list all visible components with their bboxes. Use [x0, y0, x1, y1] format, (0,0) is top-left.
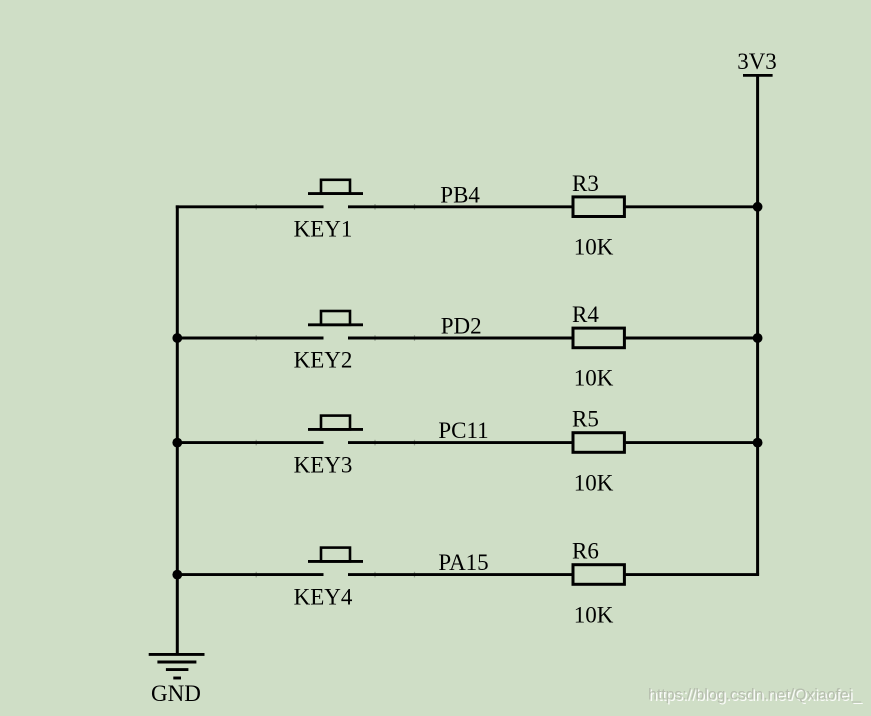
wire: row 4 right segment [626, 573, 760, 576]
power symbol 3V3 [743, 74, 773, 77]
watermark text bottom-right [648, 687, 864, 706]
wire: row 3 right segment [626, 441, 760, 444]
svg-text:PA15: PA15 [438, 550, 488, 575]
resistor R6 [573, 565, 624, 585]
svg-text:KEY3: KEY3 [294, 452, 353, 477]
svg-text:KEY2: KEY2 [294, 348, 353, 373]
wire joint row 2 at x=256.3 [256, 335, 257, 341]
wire: row 1 middle segment (switch to resistor) [348, 205, 572, 208]
wire joint row 3 at x=256.3 [256, 440, 257, 446]
svg-text:R6: R6 [572, 539, 599, 564]
wire: row 1 right segment [626, 205, 760, 208]
svg-text:KEY4: KEY4 [294, 584, 353, 609]
wire joint row 1 at x=414.6 [414, 204, 415, 210]
wire: GND vertical rail [176, 205, 179, 654]
svg-text:R3: R3 [572, 171, 599, 196]
svg-text:PD2: PD2 [441, 314, 482, 339]
wire joint row 2 at x=375.1 [374, 335, 375, 341]
resistor R4 [573, 328, 624, 348]
svg-text:PB4: PB4 [440, 182, 480, 207]
wire: row 3 middle segment (switch to resistor) [348, 441, 572, 444]
wire joint row 3 at x=375.1 [374, 440, 375, 446]
svg-text:GND: GND [151, 681, 201, 706]
wire joint row 4 at x=414.6 [414, 572, 415, 578]
svg-text:KEY1: KEY1 [294, 217, 353, 242]
switch KEY3 (push button) [308, 416, 363, 430]
svg-text:10K: 10K [574, 235, 614, 260]
svg-text:10K: 10K [574, 366, 614, 391]
wire: row 2 right segment [626, 337, 760, 340]
switch KEY4 (push button) [308, 548, 363, 562]
node: junction left rail row 3 [172, 438, 182, 448]
node: junction right rail row 1 [753, 202, 763, 212]
wire joint row 2 at x=414.6 [414, 335, 415, 341]
svg-text:https://blog.csdn.net/Qxiaofei: https://blog.csdn.net/Qxiaofei_ [648, 687, 862, 704]
wire joint row 1 at x=375.1 [374, 204, 375, 210]
switch KEY2 (push button) [308, 311, 363, 325]
svg-text:R4: R4 [572, 302, 599, 327]
wire joint row 4 at x=256.3 [256, 572, 257, 578]
wire: row 4 left segment [176, 573, 324, 576]
wire: row 2 middle segment (switch to resistor) [348, 337, 572, 340]
switch KEY1 (push button) [308, 180, 363, 194]
node: junction right rail row 3 [753, 438, 763, 448]
svg-text:R5: R5 [572, 407, 599, 432]
wire: row 3 left segment [176, 441, 324, 444]
wire: 3V3 vertical rail [756, 75, 759, 574]
node: junction right rail row 2 [753, 333, 763, 343]
wire: row 4 middle segment (switch to resistor) [348, 573, 572, 576]
svg-text:3V3: 3V3 [737, 49, 777, 74]
resistor R5 [573, 433, 624, 453]
svg-text:10K: 10K [574, 470, 614, 495]
wire: row 1 left segment [176, 205, 324, 208]
ground [149, 654, 205, 678]
svg-text:10K: 10K [574, 602, 614, 627]
node: junction left rail row 2 [172, 333, 182, 343]
node: junction left rail row 4 [172, 570, 182, 580]
wire joint row 3 at x=414.6 [414, 440, 415, 446]
wire joint row 1 at x=256.3 [256, 204, 257, 210]
svg-text:PC11: PC11 [438, 418, 488, 443]
resistor R3 [573, 197, 624, 217]
wire joint row 4 at x=375.1 [374, 572, 375, 578]
wire: row 2 left segment [176, 337, 324, 340]
